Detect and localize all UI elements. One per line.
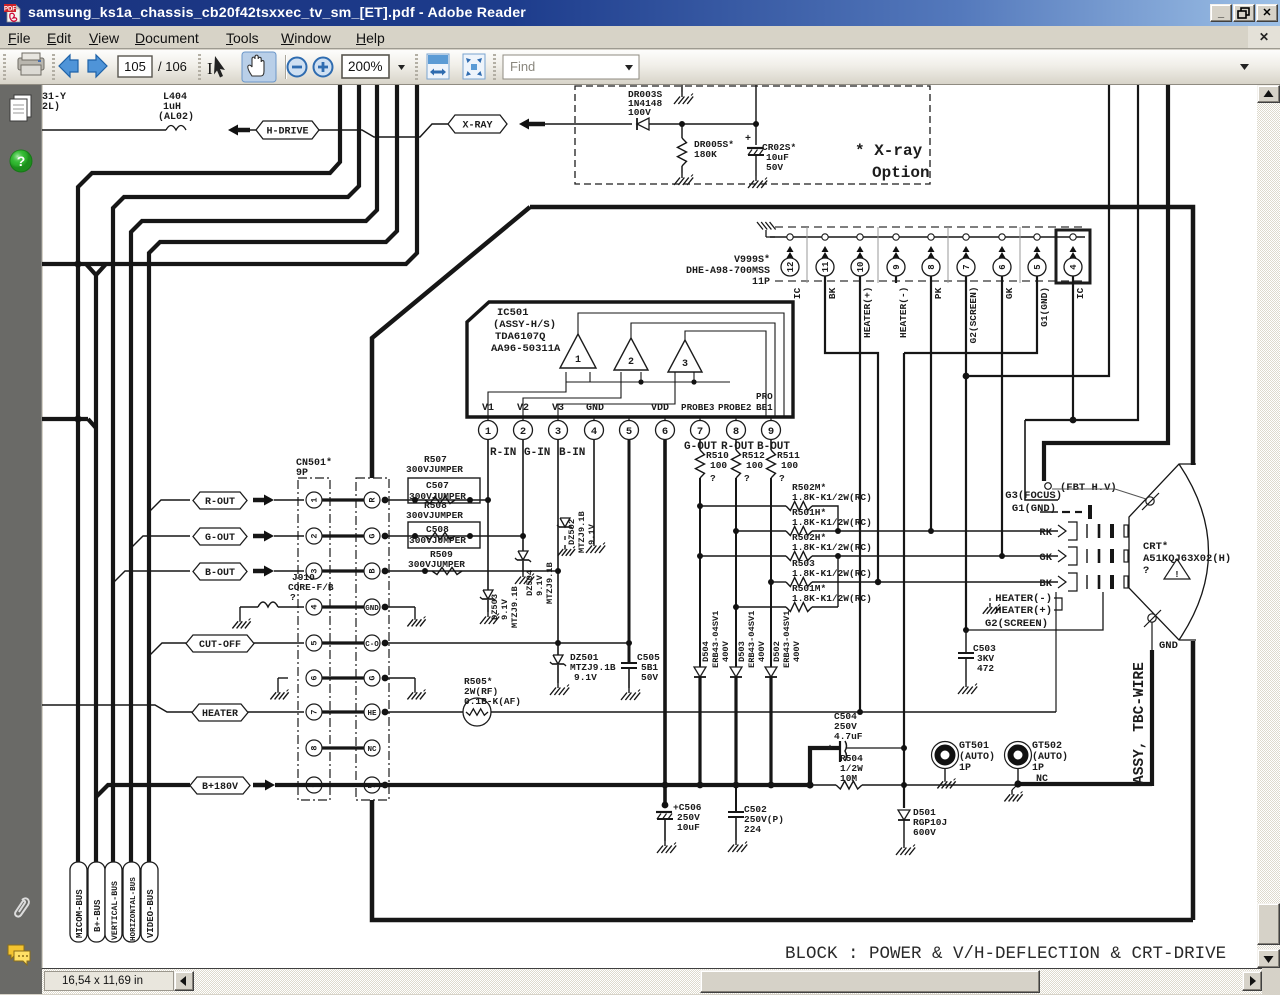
CN501 pin 1 left (306, 492, 322, 508)
junction (555, 640, 561, 646)
wire HEATER(+) pin down (859, 276, 861, 712)
junction (679, 121, 685, 127)
CN501 pin G right (364, 528, 380, 544)
svg-text:?: ? (710, 473, 716, 484)
svg-text:GT502: GT502 (1032, 741, 1062, 752)
svg-text:GND: GND (365, 605, 379, 613)
CN501 right dash-dot box (356, 478, 389, 800)
svg-text:+: + (827, 744, 833, 755)
resistor R511 100 (770, 440, 772, 450)
node hexagon B+180V row thick (96, 785, 190, 797)
capacitor C504 250V 4.7uF with thick jog (810, 748, 840, 785)
svg-text:105: 105 (124, 59, 146, 74)
junction dots after CN501 (382, 497, 389, 504)
svg-text:CUT-OFF: CUT-OFF (199, 640, 241, 651)
svg-text:2L): 2L) (42, 101, 60, 113)
svg-text:D504: D504 (701, 641, 711, 662)
svg-text:HORIZONTAL-BUS: HORIZONTAL-BUS (130, 877, 138, 941)
CN501 pin 5 left (306, 635, 322, 651)
svg-text:472: 472 (977, 663, 994, 674)
svg-text:IC: IC (792, 287, 803, 299)
resistor R502H* 1.8K-K1/2W(RC) row to GK (700, 555, 786, 557)
svg-text:9.1V: 9.1V (587, 523, 597, 545)
wire R row to R-IN with jumpers (382, 499, 488, 501)
node hexagon HEATER row (42, 705, 192, 712)
wire up to top edge at x=756 (755, 85, 757, 124)
resistor R501H* 1.8K-K1/2W(RC) row to RK (736, 530, 786, 532)
svg-text:7: 7 (962, 264, 972, 269)
ground (903, 843, 905, 848)
wire CUT-OFF row to pin5 column (382, 642, 629, 644)
capacitor CR02S* 10uF 50V (755, 124, 757, 145)
svg-text:B-OUT: B-OUT (205, 568, 235, 579)
CN501 pin 6 left (306, 670, 322, 686)
svg-text:3: 3 (682, 359, 688, 370)
ground stub top at x=682 (cut resistor DR004S) (681, 85, 683, 92)
CN501 pin 1 link (322, 498, 364, 501)
svg-text:4.7uF: 4.7uF (834, 731, 863, 742)
junction (768, 579, 774, 585)
junction (875, 579, 881, 585)
bus capsule VERTICAL-BUS (105, 862, 122, 942)
CN501 pin 9 left (306, 777, 322, 793)
CN501 pin 4 left (306, 599, 322, 615)
svg-text:HE: HE (367, 710, 377, 718)
resistor R501M* 1.8K-K1/2W(RC) row (736, 606, 786, 608)
wire GK pin down (1001, 276, 1003, 556)
svg-text:HEATER(+): HEATER(+) (995, 605, 1052, 617)
node hexagon B-OUT row (113, 571, 190, 583)
svg-text:4: 4 (1069, 264, 1079, 270)
toolbar (0, 50, 1280, 85)
svg-text:MTZJ9.1B: MTZJ9.1B (577, 511, 587, 553)
junction (467, 533, 473, 539)
junction (753, 121, 759, 127)
wire G3 focus drop (1025, 420, 1058, 500)
wire G1 row stub (1040, 511, 1058, 513)
thick wire CRT ground to GT502 (1150, 650, 1154, 786)
resistor R503 1.8K-K1/2W(RC) row to BK (771, 581, 786, 583)
svg-text:!: ! (1174, 570, 1179, 580)
CN501 row6 left ground (278, 677, 288, 679)
junction (963, 373, 970, 380)
CRT funnel outline (1129, 464, 1196, 640)
junction (412, 533, 418, 539)
svg-text:V3: V3 (552, 403, 564, 414)
svg-text:BK: BK (827, 287, 838, 299)
svg-text:ERB43-04SV1: ERB43-04SV1 (782, 611, 792, 668)
CN501 row6 right ground (382, 677, 415, 679)
junction (638, 379, 643, 384)
socket group divider (947, 227, 949, 283)
svg-text:G2(SCREEN): G2(SCREEN) (985, 618, 1048, 630)
CN501 pin 9 link (322, 783, 364, 786)
wire H-DRIVE to X-RAY with jogs (319, 124, 448, 137)
CN501 pin 8 left (306, 740, 322, 756)
socket pin 12 IC (787, 234, 793, 240)
svg-text:9: 9 (768, 426, 774, 438)
zener DZ503 9.1V MTZJ9.1B (483, 590, 493, 599)
socket pin dashes (1086, 524, 1088, 538)
ground (564, 545, 566, 550)
navigation sidebar (0, 85, 42, 994)
svg-text:200%: 200% (348, 59, 383, 74)
svg-text:PROBE3: PROBE3 (681, 402, 715, 413)
junction (697, 782, 704, 789)
junction (875, 579, 881, 585)
svg-text:6: 6 (662, 426, 668, 438)
socket pin 4 IC (1070, 234, 1076, 240)
wire pin5 down (628, 440, 631, 663)
wire G1 net to D501 column (903, 353, 905, 808)
diode D504 ERB43-04SV1 400V (694, 667, 706, 677)
vertical scrollbar (1257, 85, 1280, 968)
junction (733, 604, 739, 610)
CN501 pin R right (364, 492, 380, 508)
svg-text:(ASSY-H/S): (ASSY-H/S) (493, 319, 556, 331)
socket pin 8 PK (928, 234, 934, 240)
svg-text:B+180V: B+180V (202, 782, 238, 793)
jumper box C507 300VJUMPER (408, 478, 480, 503)
CN501 pin G right (364, 670, 380, 686)
svg-text:4: 4 (310, 604, 320, 609)
svg-text:Option: Option (872, 164, 930, 182)
svg-text:GK: GK (1039, 552, 1052, 564)
find box (503, 55, 639, 79)
svg-text:9.1V: 9.1V (574, 672, 597, 683)
svg-text:(FBT H.V): (FBT H.V) (1060, 482, 1117, 494)
svg-text:100: 100 (781, 460, 798, 471)
amplifier 3 (668, 340, 702, 372)
ground heater (989, 603, 991, 608)
junction (835, 528, 841, 534)
jumper box C508 300VJUMPER (408, 522, 480, 548)
socket pin 11 BK (822, 234, 828, 240)
ground (965, 682, 967, 687)
CN501 pin HE right (364, 704, 380, 720)
svg-text:3: 3 (555, 426, 561, 438)
resistor R505* 2W(RF) 0.1B-K(AF) on heater row (382, 711, 463, 713)
wire G2(SCREEN) pin down (965, 276, 967, 630)
svg-text:1: 1 (575, 355, 581, 366)
svg-text:300VJUMPER: 300VJUMPER (406, 464, 463, 475)
main block frame thick outline (530, 207, 1193, 465)
socket pin 10 HEATER(+) (857, 234, 863, 240)
junction (467, 497, 473, 503)
svg-text:1.8K-K1/2W(RC): 1.8K-K1/2W(RC) (792, 542, 872, 553)
svg-text:DZ502: DZ502 (567, 519, 577, 545)
junction (412, 497, 418, 503)
svg-text:R-IN: R-IN (490, 447, 516, 459)
ground (681, 173, 683, 178)
svg-text:HEATER: HEATER (202, 709, 238, 720)
junction (999, 553, 1005, 559)
arrow into X-RAY (519, 119, 529, 130)
spark gap GT502 (AUTO) 1P NC (1005, 742, 1032, 769)
svg-text:8: 8 (733, 426, 739, 438)
wire amp1 feedback (578, 313, 784, 417)
junction (555, 568, 561, 574)
svg-text:1.8K-K1/2W(RC): 1.8K-K1/2W(RC) (792, 517, 872, 528)
ground (557, 683, 559, 688)
junction (697, 503, 703, 509)
svg-text:MICOM-BUS: MICOM-BUS (75, 889, 85, 938)
svg-text:B: B (368, 568, 378, 573)
svg-text:V2: V2 (517, 403, 529, 414)
svg-text:(AUTO): (AUTO) (959, 751, 995, 763)
svg-text:Find: Find (510, 59, 535, 74)
svg-text:DZ503: DZ503 (490, 594, 500, 620)
wire amp output bus (566, 381, 730, 383)
svg-text:50V: 50V (641, 672, 658, 683)
svg-text:2: 2 (520, 426, 526, 438)
left edge stub wire y=419 (42, 417, 88, 421)
svg-text:ASSY, TBC-WIRE: ASSY, TBC-WIRE (1132, 662, 1148, 784)
bus capsule HORIZONTAL-BUS (123, 862, 140, 942)
diode D503 ERB43-04SV1 400V (730, 667, 742, 677)
CN501 pin 7 link (322, 710, 364, 713)
svg-text:GND: GND (1159, 640, 1178, 652)
svg-text:1P: 1P (1032, 763, 1044, 774)
svg-text:12: 12 (786, 262, 796, 273)
forward arrow (88, 55, 107, 77)
select tool icon (207, 56, 225, 78)
svg-text:?: ? (779, 473, 785, 484)
CN501 pin 6 link (322, 676, 364, 679)
svg-text:G: G (368, 675, 378, 680)
resistor R504 1/2W 10M (810, 784, 836, 786)
svg-text:1P: 1P (959, 763, 971, 774)
wire IC pin4 down (1072, 276, 1074, 420)
svg-text:+: + (745, 134, 751, 145)
junction (697, 553, 703, 559)
svg-text:0.1B-K(AF): 0.1B-K(AF) (464, 696, 521, 707)
svg-text:* X-ray: * X-ray (855, 142, 923, 160)
wire FBT to anode (1052, 489, 1146, 499)
ground (593, 541, 595, 546)
FBT HV terminal circle (1045, 483, 1052, 490)
ground (755, 176, 757, 181)
svg-text:1.8K-K1/2W(RC): 1.8K-K1/2W(RC) (792, 492, 872, 503)
svg-text:BK: BK (1039, 578, 1052, 590)
wire H-drive input from left edge (42, 129, 166, 131)
CRT connector bracket RK (1058, 525, 1066, 537)
svg-text:G-IN: G-IN (524, 447, 550, 459)
socket pin 5 G1(GND) (1034, 234, 1040, 240)
svg-text:V1: V1 (482, 403, 494, 414)
svg-text:NC: NC (1036, 774, 1048, 785)
CN501 pin 4 link (322, 605, 364, 608)
svg-text:(AUTO): (AUTO) (1032, 751, 1068, 763)
bus B+ vertical fork (86, 264, 106, 275)
warning triangle (1164, 559, 1190, 579)
svg-text:CRT*: CRT* (1143, 541, 1168, 553)
svg-text:BE1: BE1 (756, 402, 773, 413)
comments icon (8, 945, 30, 965)
junction (691, 379, 696, 384)
junction (733, 782, 740, 789)
svg-text:H-DRIVE: H-DRIVE (266, 127, 308, 138)
heater bracket wires (1054, 598, 1062, 610)
CRT socket wire (770, 236, 1085, 238)
ground (735, 840, 737, 845)
svg-text:R-OUT: R-OUT (205, 497, 235, 508)
svg-text:D502: D502 (772, 641, 782, 662)
svg-text:(AL02): (AL02) (158, 111, 194, 123)
wire B-IN down to cutoff row (557, 440, 559, 643)
svg-text:10M: 10M (840, 773, 857, 784)
CN501 pin 2 left (306, 528, 322, 544)
G1 row dashes (1062, 511, 1070, 513)
svg-text:4: 4 (591, 426, 597, 438)
amplifier 1 (560, 334, 596, 368)
wire V2 to amp2 (523, 382, 621, 417)
socket group divider (1019, 227, 1021, 283)
CRT connector bracket BK (1058, 576, 1066, 588)
svg-text:I: I (207, 59, 213, 78)
svg-text:100V: 100V (628, 107, 651, 118)
ground (664, 841, 666, 846)
junction (74, 415, 81, 422)
svg-text:D503: D503 (737, 641, 747, 662)
svg-text:HEATER(+): HEATER(+) (862, 287, 873, 338)
junction (768, 782, 775, 789)
CRT ground terminal marker (1148, 614, 1156, 622)
svg-text:8: 8 (927, 264, 937, 269)
svg-text:PDF: PDF (4, 6, 16, 12)
CN501 pin 5 link (322, 641, 364, 644)
svg-text:300VJUMPER: 300VJUMPER (406, 510, 463, 521)
ground (487, 612, 489, 617)
wire PK pin down (930, 276, 932, 531)
diode D502 ERB43-04SV1 400V (765, 667, 777, 677)
CN501 pin GND right (364, 599, 380, 615)
sidebar bottom corner (0, 968, 42, 994)
arrow into H-DRIVE (228, 125, 238, 136)
svg-text:?: ? (1143, 565, 1149, 577)
menu bar (0, 26, 1280, 49)
svg-text:TDA6107Q: TDA6107Q (495, 331, 545, 343)
zoom in button (314, 58, 333, 77)
wire V1 to amp1 (488, 382, 566, 417)
svg-text:7: 7 (310, 709, 320, 714)
resistor DR005S* 180K (681, 124, 683, 138)
bus capsule VIDEO-BUS (141, 862, 158, 942)
svg-text:NC: NC (367, 746, 377, 754)
wire B row to B-IN with jumper R509 (382, 570, 558, 572)
wire BK pin down with jog (825, 276, 878, 582)
svg-text:600V: 600V (913, 827, 936, 838)
svg-text:50V: 50V (766, 162, 783, 173)
svg-text:G-OUT: G-OUT (205, 533, 235, 544)
svg-text:C-O: C-O (365, 641, 379, 649)
svg-text:100: 100 (746, 460, 763, 471)
wire amp3 feedback (685, 331, 766, 417)
junction (485, 497, 491, 503)
CN501 pin 3 link (322, 569, 364, 572)
svg-text:AA96-50311A: AA96-50311A (491, 343, 561, 355)
svg-text:224: 224 (744, 824, 761, 835)
CN501 pin C-O right (364, 635, 380, 651)
fit page icon (463, 54, 485, 79)
junction (1070, 417, 1077, 424)
node hexagon H-DRIVE (256, 121, 319, 139)
svg-text:?: ? (290, 592, 296, 603)
svg-text:400V: 400V (721, 640, 731, 662)
svg-text:6: 6 (998, 264, 1008, 269)
wire amp2 feedback (631, 323, 775, 417)
junction (662, 782, 669, 789)
svg-text:/ 106: / 106 (158, 59, 187, 74)
svg-text:G1(GND): G1(GND) (1039, 287, 1050, 327)
socket group divider (806, 227, 808, 283)
svg-text:A51KQJ63X02(H): A51KQJ63X02(H) (1143, 553, 1231, 565)
CN501 pin 8 link (322, 746, 364, 749)
wire G-IN down (522, 440, 524, 551)
socket group dashed line (775, 226, 1085, 228)
svg-text:IC501: IC501 (497, 307, 529, 319)
svg-text:PRO: PRO (756, 391, 773, 402)
wire GND pin down (593, 440, 595, 541)
resistor R510 100 (699, 440, 701, 450)
svg-text:1: 1 (485, 426, 491, 438)
IC501 pins 1-9 (487, 417, 489, 421)
wire G-OUT column (699, 478, 701, 667)
svg-text:B-IN: B-IN (559, 447, 585, 459)
svg-text:MTZJ9.1B: MTZJ9.1B (545, 562, 555, 604)
wire to X-ray option circuit (545, 123, 632, 125)
jumper R508 zigzag on wire (425, 533, 455, 540)
svg-text:X-RAY: X-RAY (462, 121, 492, 132)
svg-text:9.1V: 9.1V (500, 598, 510, 620)
junction (901, 782, 907, 788)
wire V3 to amp3 (558, 382, 675, 417)
amp base leads (565, 372, 567, 382)
svg-text:BLOCK : POWER & V/H-DEFLECTION: BLOCK : POWER & V/H-DEFLECTION & CRT-DRI… (785, 944, 1226, 964)
wire HEATER(-) pin stub (895, 276, 897, 283)
svg-text:VDD: VDD (651, 403, 669, 414)
resistor R512 100 (735, 440, 737, 450)
CN501 pin B right (364, 563, 380, 579)
socket pin 7 G2(SCREEN) (963, 234, 969, 240)
ground (628, 688, 630, 693)
zener DZ502 stub (564, 536, 566, 540)
svg-text:PROBE2: PROBE2 (718, 402, 752, 413)
svg-text:G1(GND): G1(GND) (1012, 503, 1056, 515)
svg-text:180K: 180K (694, 149, 717, 160)
wire R-IN down (487, 440, 489, 590)
pin 4 thick box (1056, 230, 1090, 283)
print button icon (18, 53, 44, 75)
svg-text:1.8K-K1/2W(RC): 1.8K-K1/2W(RC) (792, 568, 872, 579)
ground (522, 572, 524, 577)
junction (1014, 780, 1021, 787)
svg-text:8: 8 (310, 745, 320, 750)
svg-text:ERB43-04SV1: ERB43-04SV1 (711, 611, 721, 668)
wire G2 to CRT (966, 592, 1103, 630)
CRT connector bracket GK (1058, 550, 1066, 562)
svg-text:1: 1 (310, 497, 320, 502)
jumper R507 zigzag on wire (425, 497, 455, 504)
svg-text:11P: 11P (752, 277, 770, 288)
ground at socket left (766, 236, 775, 238)
svg-text:1.8K-K1/2W(RC): 1.8K-K1/2W(RC) (792, 593, 872, 604)
svg-text:10: 10 (856, 262, 866, 273)
svg-text:ERB43-04SV1: ERB43-04SV1 (747, 611, 757, 668)
wire from top x=1109 to G2 node (966, 85, 1109, 376)
svg-text:G: G (368, 533, 378, 538)
svg-text:?: ? (17, 153, 26, 169)
